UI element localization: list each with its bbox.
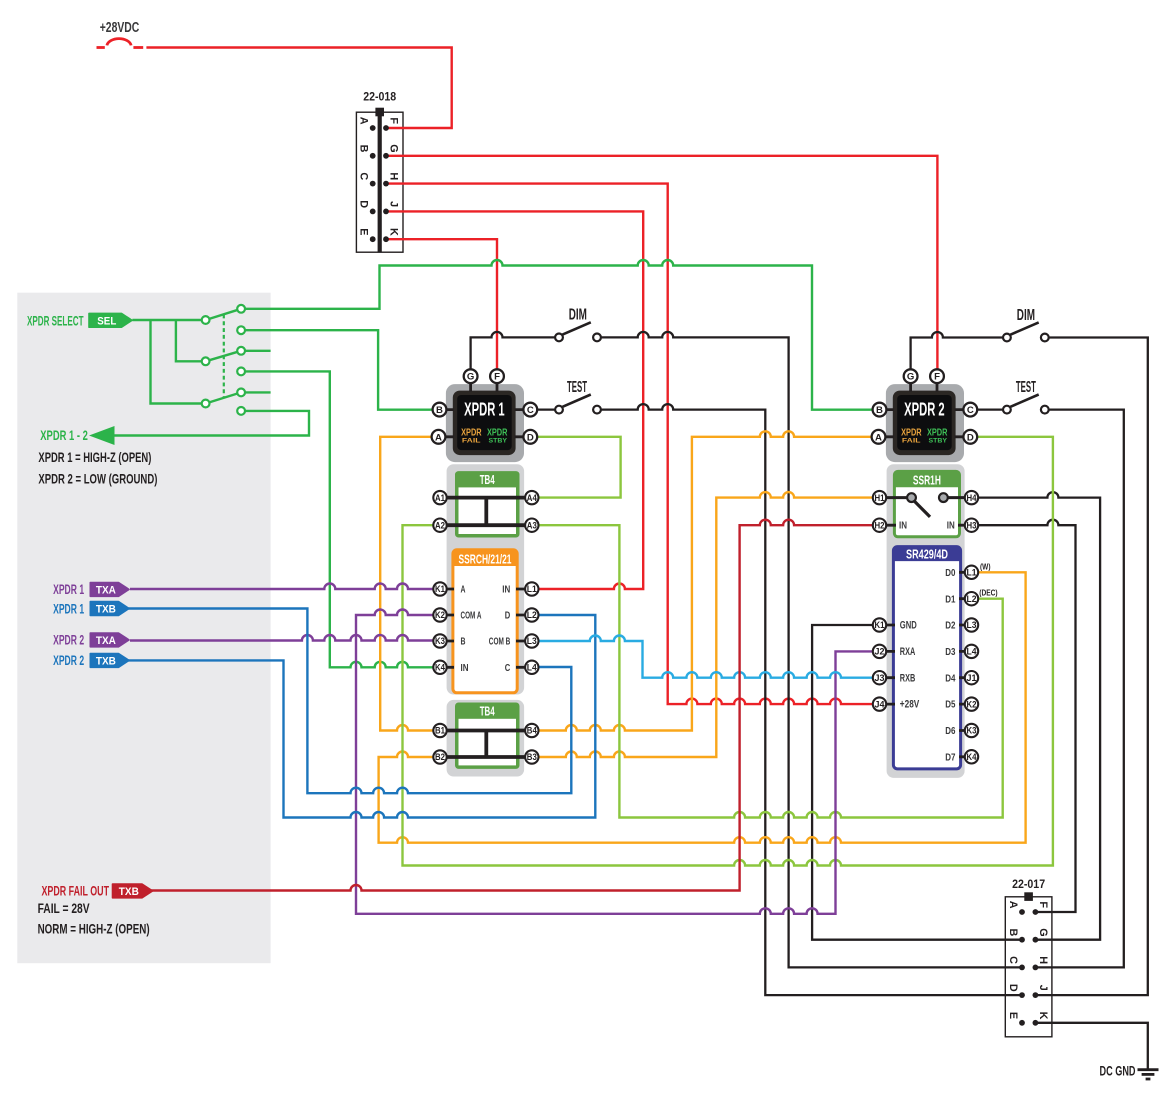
wire TB4 A3 to SR429 D1 L2 (lime): [532, 525, 1003, 817]
svg-text:L3: L3: [527, 636, 537, 646]
svg-text:C: C: [527, 405, 534, 416]
SR429 pin K4: [965, 750, 978, 763]
XPDR1 pin C: [523, 403, 537, 417]
SR429 pin L1: [965, 566, 978, 579]
svg-text:K4: K4: [435, 663, 445, 673]
svg-text:F: F: [494, 372, 500, 383]
connector 22-018 pin J: [383, 209, 389, 215]
connector 22-017 pin E: [1019, 1020, 1025, 1026]
left aircraft-side panel background: [17, 293, 270, 964]
SSR1H pin H3: [965, 519, 978, 532]
svg-text:D5: D5: [945, 700, 956, 711]
SSRCH pin K3: [433, 634, 446, 647]
SSR1H pin stubs: [880, 524, 972, 527]
svg-text:A: A: [461, 585, 466, 596]
svg-text:B: B: [436, 405, 443, 416]
svg-text:A3: A3: [527, 520, 537, 530]
wire XPDR 1 TXB to SSRCH L4 C (blue): [128, 609, 572, 794]
svg-text:TXA: TXA: [96, 635, 116, 647]
connector 22-018 body: [356, 112, 403, 252]
svg-text:TEST: TEST: [567, 379, 587, 396]
switch mechanical link (dashed green): [223, 315, 225, 398]
svg-text:H4: H4: [967, 493, 977, 503]
SSRCH pin K2: [433, 608, 446, 621]
wire XPDR SELECT pole1 common-row to XPDR1 pin B (green): [241, 330, 436, 410]
SSRCH pin stubs: [440, 589, 532, 667]
switch blade pole2 (green): [206, 351, 242, 362]
TB4 pin A1: [433, 491, 446, 504]
svg-text:J: J: [1037, 985, 1049, 991]
XPDR1 pin A: [432, 430, 446, 444]
SSR1H relay blade: [914, 500, 930, 517]
svg-text:SR429/4D: SR429/4D: [906, 547, 948, 561]
SSR1H contact circle left: [907, 493, 916, 502]
wire XPDR SELECT pole2 upper throw stub (green): [241, 350, 271, 352]
svg-text:H3: H3: [967, 520, 977, 530]
connector 22-018 pin H: [383, 181, 389, 187]
svg-text:TXA: TXA: [96, 584, 116, 596]
right component column (gray) SSR1H+SR429: [887, 464, 965, 778]
badge XPDR 1 TXB: [90, 602, 129, 616]
svg-text:COM B: COM B: [489, 637, 511, 648]
svg-text:GND: GND: [900, 620, 917, 632]
svg-text:B4: B4: [527, 726, 537, 736]
wire 22-018 K to XPDR1 pin F (red): [386, 239, 497, 369]
svg-text:B2: B2: [435, 752, 445, 762]
svg-text:XPDR 1: XPDR 1: [53, 601, 84, 616]
badge XPDR 2 TXA: [90, 633, 129, 647]
TB4 pin A4: [525, 491, 538, 504]
XPDR2 pin D: [963, 430, 977, 444]
svg-text:A: A: [875, 432, 882, 443]
TB4 pin A2: [433, 519, 446, 532]
svg-text:D7: D7: [945, 752, 956, 763]
connector 22-017 pin H: [1033, 965, 1039, 971]
svg-text:L3: L3: [967, 620, 977, 630]
SR429 pin K2: [965, 697, 978, 710]
XPDR2 switch housing (gray): [886, 384, 964, 462]
wire SSR1H H3 to 22-017 F (black): [978, 520, 1076, 912]
wire XPDR SELECT pole3 lower throw to XPDR 1 - 2 output arrow (green): [107, 411, 309, 436]
svg-text:G: G: [1037, 928, 1049, 936]
svg-text:A: A: [1007, 901, 1019, 909]
SR429 pin L2: [965, 592, 978, 605]
svg-text:L4: L4: [527, 663, 537, 673]
wire SEL feed to switch commons (green): [132, 319, 205, 321]
svg-text:FAIL = 28V: FAIL = 28V: [38, 900, 90, 916]
svg-text:L1: L1: [527, 584, 537, 594]
SR429 pin K3: [965, 724, 978, 737]
svg-text:TB4: TB4: [480, 705, 495, 719]
svg-text:L2: L2: [527, 610, 537, 620]
wire SSR1H H4 to 22-017 G (black): [978, 492, 1101, 940]
svg-text:F: F: [388, 117, 400, 124]
svg-text:D0: D0: [945, 568, 956, 579]
svg-text:K3: K3: [435, 636, 445, 646]
wire SEL feed branch to pole3 common (green): [151, 320, 206, 404]
badge XPDR 1 TXA: [90, 583, 129, 597]
svg-text:TEST: TEST: [1016, 379, 1036, 396]
SR429 pin J3: [873, 671, 886, 684]
svg-text:B1: B1: [435, 726, 445, 736]
XPDR2 pin stubs: [879, 376, 971, 437]
svg-text:B: B: [876, 405, 883, 416]
SSR1H pin H4: [965, 491, 978, 504]
svg-text:C: C: [967, 405, 974, 416]
svg-text:A1: A1: [435, 493, 445, 503]
svg-text:XPDR 2 = LOW (GROUND): XPDR 2 = LOW (GROUND): [38, 470, 157, 486]
connector 22-017 body: [1005, 897, 1052, 1037]
svg-text:J4: J4: [875, 699, 885, 709]
wire XPDR1 C to TEST switch (black): [537, 408, 555, 410]
svg-text:K: K: [388, 228, 400, 236]
svg-text:A2: A2: [435, 520, 445, 530]
wire SR429 K1 GND to 22-017 B (black): [812, 625, 1022, 940]
wire SSRCH L3 COM B to SR429 J3 RXB (cyan): [538, 636, 875, 678]
connector 22-017 pin J: [1033, 992, 1039, 998]
TEST switch for XPDR2: [1010, 395, 1038, 407]
svg-text:XPDR 1 = HIGH-Z (OPEN): XPDR 1 = HIGH-Z (OPEN): [38, 449, 151, 465]
svg-text:K: K: [1037, 1012, 1049, 1020]
decoder SR429/4D body: [893, 547, 960, 769]
XPDR SELECT switch contacts: [202, 316, 210, 324]
svg-text:TXB: TXB: [119, 886, 139, 898]
SR429 pin J4: [873, 697, 886, 710]
svg-text:B: B: [358, 145, 370, 153]
svg-text:(DEC): (DEC): [979, 588, 998, 597]
TB4 pin A3: [525, 519, 538, 532]
connector 22-017 keying square: [1024, 892, 1033, 901]
wire TB4 B2 to SR429 D0 L1 (orange): [379, 572, 1026, 842]
svg-text:E: E: [1007, 1012, 1019, 1019]
svg-text:C: C: [1007, 956, 1019, 964]
TB4 pin B3: [525, 750, 538, 763]
switch blade pole1 (green): [206, 309, 242, 320]
XPDR1 pin stubs: [439, 376, 531, 437]
TB4 lower strap B1-B4: [440, 729, 532, 733]
svg-text:C: C: [505, 663, 511, 674]
connector 22-017 pin B: [1019, 937, 1025, 943]
svg-text:D6: D6: [945, 726, 956, 737]
svg-text:E: E: [358, 228, 370, 235]
connector 22-018 pin E: [370, 236, 376, 242]
svg-text:K2: K2: [967, 699, 977, 709]
svg-text:A: A: [435, 432, 442, 443]
wire XPDR 2 TXA to SSRCH K3 B (purple): [130, 635, 440, 640]
svg-text:D: D: [527, 432, 534, 443]
connector 22-017 pin A: [1019, 909, 1025, 915]
DIM switch for XPDR1: [563, 322, 591, 334]
badge XPDR FAIL OUT TXB: [113, 884, 153, 898]
connector 22-018 pin B: [370, 153, 376, 159]
SSRCH pin L2: [525, 608, 538, 621]
connector 22-017 pin K: [1033, 1020, 1039, 1026]
svg-text:DC GND: DC GND: [1100, 1064, 1136, 1079]
svg-text:K1: K1: [435, 584, 445, 594]
SSRCH pin L4: [525, 661, 538, 674]
wire XPDR1 A to TB4 B1 (orange): [380, 437, 440, 731]
switch blade pole3 (green): [206, 392, 242, 403]
SSR1H pin H2: [873, 519, 886, 532]
XPDR1 switch housing (gray): [446, 384, 524, 462]
ground symbol DC GND: [1138, 1068, 1159, 1071]
svg-text:XPDR 2: XPDR 2: [53, 633, 84, 648]
SR429 pin stubs: [880, 572, 972, 757]
SSRCH pin K4: [433, 661, 446, 674]
svg-text:XPDR SELECT: XPDR SELECT: [27, 312, 84, 328]
XPDR1 pin D: [523, 430, 537, 444]
svg-text:XPDR 1: XPDR 1: [464, 400, 505, 420]
TB4 upper strap vertical: [484, 498, 488, 526]
wire XPDR1 DIM switch to 22-017 C (black): [601, 332, 1022, 968]
wire TB4 B4 to XPDR2 A (orange): [532, 431, 874, 730]
DIM switch for XPDR2: [1010, 322, 1038, 334]
svg-text:DIM: DIM: [569, 307, 587, 324]
connector 22-018 pin K: [383, 236, 389, 242]
wire XPDR2 DIM switch to 22-017 J (black): [1035, 338, 1147, 996]
SSR1H contact circle right: [939, 493, 948, 502]
XPDR2 pin G: [904, 369, 918, 383]
wire XPDR2 G to DIM switch (black): [911, 332, 1003, 370]
XPDR1 pin G: [464, 369, 478, 383]
wire TB4 A2 to XPDR2 D (lime): [403, 437, 1053, 866]
XPDR1 pin B: [433, 403, 447, 417]
svg-text:B: B: [461, 637, 466, 648]
connector 22-018 pin F: [383, 125, 389, 131]
svg-text:K3: K3: [967, 726, 977, 736]
svg-text:XPDR 2: XPDR 2: [904, 400, 945, 420]
terminal block TB4 lower: [455, 703, 520, 769]
node XPDR 1 - 2 output arrow: [89, 426, 115, 445]
wire XPDR SELECT pole2 lower throw to SSRCH K4 IN (green): [241, 371, 440, 667]
svg-text:J2: J2: [875, 647, 885, 657]
wire XPDR FAIL OUT TXB to SSR1H H2 IN (dark red): [151, 520, 874, 891]
connector 22-018 center bar: [378, 112, 382, 252]
connector 22-017 pin G: [1033, 937, 1039, 943]
svg-text:K4: K4: [967, 752, 977, 762]
wire 22-018 H to SR429 J4 +28V (red): [386, 184, 875, 705]
XPDR2 pin B: [873, 403, 887, 417]
svg-text:+28VDC: +28VDC: [100, 19, 140, 36]
relay SSRCH/21/21 body: [453, 550, 517, 693]
wire XPDR SELECT pole3 upper throw stub (green): [241, 391, 271, 393]
XPDR2 screen: [897, 395, 952, 450]
svg-text:(W): (W): [980, 563, 991, 572]
connector 22-018 pin A: [370, 125, 376, 131]
svg-text:G: G: [467, 372, 474, 383]
svg-text:NORM = HIGH-Z (OPEN): NORM = HIGH-Z (OPEN): [38, 920, 150, 936]
wire 22-017 K to DC GND (black): [1035, 1023, 1147, 1070]
TB4 pin B1: [433, 724, 446, 737]
TB4 pin B4: [525, 724, 538, 737]
wire SEL feed branch to pole2 common (green): [176, 320, 206, 361]
wire XPDR1 G to DIM switch (black): [471, 332, 555, 370]
connector 22-018 pin G: [383, 153, 389, 159]
svg-text:A4: A4: [527, 493, 537, 503]
svg-text:D: D: [505, 611, 511, 622]
svg-text:TB4: TB4: [480, 473, 495, 487]
SR429 pin L4: [965, 645, 978, 658]
SR429 pin J1: [965, 671, 978, 684]
svg-text:STBY: STBY: [489, 438, 508, 445]
SSR1H contact stubs: [880, 496, 972, 499]
SSRCH pin K1: [433, 582, 446, 595]
wire XPDR 1 TXA to SSRCH K1 A (purple): [130, 584, 440, 590]
XPDR2 pin C: [963, 403, 977, 417]
svg-text:SSRCH/21/21: SSRCH/21/21: [459, 552, 512, 566]
svg-text:XPDR FAIL OUT: XPDR FAIL OUT: [42, 884, 110, 899]
op switch XPDR1 bezel: [453, 391, 516, 456]
svg-text:B3: B3: [527, 752, 537, 762]
TEST switch for XPDR1: [563, 395, 591, 407]
SR429 pin L3: [965, 618, 978, 631]
left lower TB4 column (gray): [447, 700, 524, 777]
svg-text:H: H: [388, 172, 400, 180]
wire XPDR1 D to TB4 A4 (lime): [532, 437, 621, 498]
SR429 pin K1: [873, 618, 886, 631]
svg-text:22-018: 22-018: [363, 91, 396, 104]
XPDR2 pin A: [872, 430, 886, 444]
svg-text:A: A: [358, 117, 370, 125]
relay SSR1H body: [894, 471, 959, 536]
XPDR2 pin F: [930, 369, 944, 383]
connector 22-018 pin D: [370, 209, 376, 215]
badge XPDR 2 TXB: [90, 654, 129, 668]
wire XPDR2 C to TEST switch (black): [977, 408, 1003, 410]
svg-text:TXB: TXB: [96, 604, 116, 616]
TB4 lower strap B2-B3: [440, 755, 532, 759]
svg-text:K2: K2: [435, 610, 445, 620]
svg-text:SEL: SEL: [97, 315, 116, 327]
svg-text:J3: J3: [875, 673, 885, 683]
svg-text:K1: K1: [875, 620, 885, 630]
svg-text:B: B: [1007, 928, 1019, 936]
svg-text:L1: L1: [967, 568, 977, 578]
svg-text:F: F: [1037, 901, 1049, 908]
svg-text:G: G: [907, 372, 914, 383]
svg-text:IN: IN: [461, 663, 469, 674]
svg-text:XPDR 1: XPDR 1: [53, 582, 84, 597]
svg-text:STBY: STBY: [929, 438, 948, 445]
terminal block TB4 upper: [455, 471, 520, 537]
svg-text:H: H: [1037, 956, 1049, 964]
TB4 upper strap A1-A4: [440, 496, 532, 500]
svg-text:IN: IN: [947, 521, 955, 532]
connector 22-018 pin C: [370, 181, 376, 187]
svg-text:H2: H2: [875, 520, 885, 530]
connector 22-017 pin C: [1019, 965, 1025, 971]
svg-text:SSR1H: SSR1H: [913, 473, 941, 487]
op switch XPDR2 bezel: [893, 391, 956, 456]
wire XPDR1 TEST switch to 22-017 D (black): [601, 404, 1022, 995]
svg-text:IN: IN: [899, 521, 907, 532]
connector 22-018 keying square: [375, 108, 384, 117]
connector 22-017 pin F: [1033, 909, 1039, 915]
SSRCH pin L1: [525, 582, 538, 595]
svg-text:J1: J1: [967, 673, 977, 683]
SR429 pin J2: [873, 645, 886, 658]
svg-text:G: G: [388, 144, 400, 152]
wire +28VDC feed with breaker to 22-018 pin F (red): [97, 46, 105, 49]
svg-text:RXA: RXA: [900, 646, 916, 658]
svg-text:22-017: 22-017: [1012, 878, 1045, 891]
wire XPDR 2 TXB to SSRCH L2 D (blue): [128, 615, 596, 818]
SSRCH pin L3: [525, 634, 538, 647]
XPDR1 pin F: [490, 369, 504, 383]
SSR1H pin H1: [873, 491, 886, 504]
svg-text:C: C: [358, 172, 370, 180]
wire TB4 B3 to SSR1H H1 (orange): [532, 492, 874, 757]
wire XPDR SELECT pole1 throw to XPDR2 pin B (green): [241, 260, 876, 410]
XPDR1 screen: [457, 395, 512, 450]
wire SSRCH K2 COM A to SR429 J2 RXA (purple): [356, 610, 875, 914]
svg-text:FAIL: FAIL: [462, 438, 481, 445]
svg-text:D: D: [967, 432, 974, 443]
svg-text:XPDR 1 - 2: XPDR 1 - 2: [40, 427, 88, 443]
svg-text:D1: D1: [945, 594, 956, 605]
svg-text:IN: IN: [502, 585, 510, 596]
svg-text:D: D: [358, 200, 370, 208]
svg-text:L4: L4: [967, 647, 977, 657]
svg-text:RXB: RXB: [900, 672, 916, 684]
svg-text:FAIL: FAIL: [902, 438, 921, 445]
connector 22-017 pin D: [1019, 992, 1025, 998]
svg-text:D: D: [1007, 984, 1019, 992]
svg-text:H1: H1: [875, 493, 885, 503]
svg-text:J: J: [388, 201, 400, 207]
left component column (gray) TB4+SSRCH: [447, 464, 524, 694]
svg-text:COM A: COM A: [461, 611, 482, 622]
svg-text:XPDR 2: XPDR 2: [53, 653, 84, 668]
svg-text:DIM: DIM: [1017, 307, 1035, 324]
svg-text:D2: D2: [945, 621, 956, 632]
TB4 pin B2: [433, 750, 446, 763]
TB4 upper strap A2-A3: [440, 523, 532, 527]
svg-text:D3: D3: [945, 647, 956, 658]
wire 22-018 J to SSRCH L1 IN (red): [386, 211, 643, 589]
svg-text:+28V: +28V: [900, 699, 920, 711]
svg-text:TXB: TXB: [96, 655, 116, 667]
wire 22-018 G to XPDR2 pin F (red): [386, 156, 937, 370]
badge SEL: [89, 313, 132, 327]
svg-text:L2: L2: [967, 594, 977, 604]
TB4 lower strap vertical: [484, 731, 488, 758]
svg-text:D4: D4: [945, 673, 956, 684]
svg-text:F: F: [934, 372, 940, 383]
wire XPDR2 TEST switch to 22-017 H (black): [1035, 410, 1123, 968]
